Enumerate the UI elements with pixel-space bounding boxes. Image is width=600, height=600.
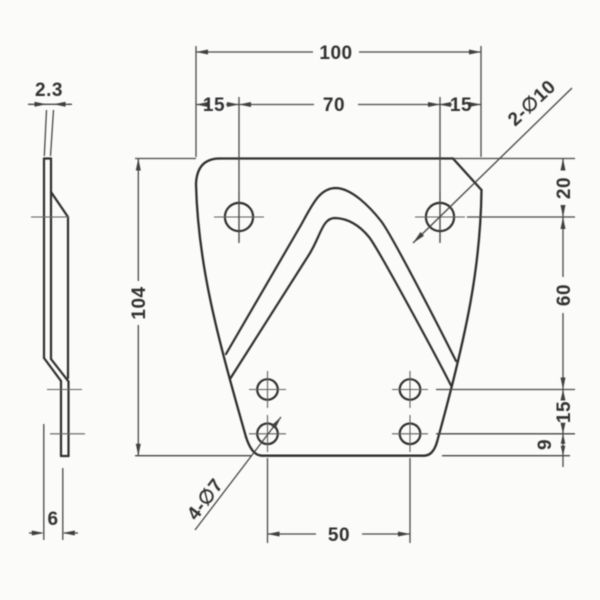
side view right face upper bbox=[50, 159, 52, 360]
dimension 2.3 bbox=[28, 104, 72, 156]
V-band bend inner line bbox=[230, 218, 451, 386]
svg-text:2.3: 2.3 bbox=[35, 80, 63, 101]
label 4-phi7 leader bbox=[195, 417, 281, 530]
hole bottom-right-upper phi7 bbox=[392, 371, 428, 408]
plate bottom edge bbox=[262, 455, 424, 457]
plate top-left rounded corner bbox=[196, 159, 219, 185]
dim 50 bbox=[268, 458, 411, 543]
dim 104 bbox=[135, 159, 252, 456]
svg-text:6: 6 bbox=[47, 509, 58, 530]
svg-text:70: 70 bbox=[323, 95, 345, 116]
dim 100 bbox=[196, 46, 481, 157]
side view left face bbox=[43, 159, 45, 359]
svg-text:15: 15 bbox=[450, 95, 472, 116]
label 2-phi10 leader bbox=[413, 88, 572, 243]
svg-text:50: 50 bbox=[328, 525, 350, 546]
hole top-left phi10 bbox=[214, 192, 264, 242]
svg-text:15: 15 bbox=[203, 95, 225, 116]
side view lower right face bbox=[67, 382, 69, 457]
side view top cap bbox=[44, 157, 51, 159]
side view bottom cap bbox=[61, 455, 69, 457]
V-band bend outer line bbox=[226, 188, 456, 361]
svg-text:60: 60 bbox=[554, 284, 575, 306]
dim 70 bbox=[239, 97, 440, 243]
plate left edge bbox=[196, 184, 246, 437]
hole bottom-right-lower phi7 bbox=[392, 415, 428, 452]
side view tab outer face bbox=[67, 217, 69, 378]
dim 15 right-side bbox=[562, 390, 564, 434]
svg-text:15: 15 bbox=[554, 401, 575, 423]
plate right edge bbox=[437, 190, 482, 442]
dim 15 left bbox=[196, 104, 239, 106]
right side extension lines bbox=[436, 159, 575, 456]
plate top-right chamfer bbox=[453, 159, 482, 191]
hole bottom-left-lower phi7 bbox=[249, 415, 286, 452]
dim 60 bbox=[562, 217, 564, 390]
svg-text:100: 100 bbox=[319, 43, 352, 64]
side view tab out-diagonal bbox=[51, 192, 68, 217]
svg-text:20: 20 bbox=[554, 177, 575, 199]
svg-text:9: 9 bbox=[535, 439, 556, 450]
dim 20 bbox=[562, 159, 564, 218]
side view joggle left bbox=[44, 358, 61, 381]
plate bottom-left corner bbox=[246, 437, 262, 456]
side view joggle right bbox=[51, 359, 69, 382]
hole top-right phi10 bbox=[415, 192, 465, 242]
dim 9 bbox=[562, 434, 564, 467]
plate top edge bbox=[219, 157, 453, 159]
side view lower left face bbox=[60, 381, 62, 456]
side view hole centerlines bbox=[31, 217, 85, 434]
dim 15 right bbox=[440, 104, 481, 106]
dimension 6 bbox=[29, 424, 78, 540]
svg-text:104: 104 bbox=[129, 286, 150, 319]
plate bottom-right corner bbox=[424, 442, 437, 456]
hole bottom-left-upper phi7 bbox=[249, 371, 286, 408]
